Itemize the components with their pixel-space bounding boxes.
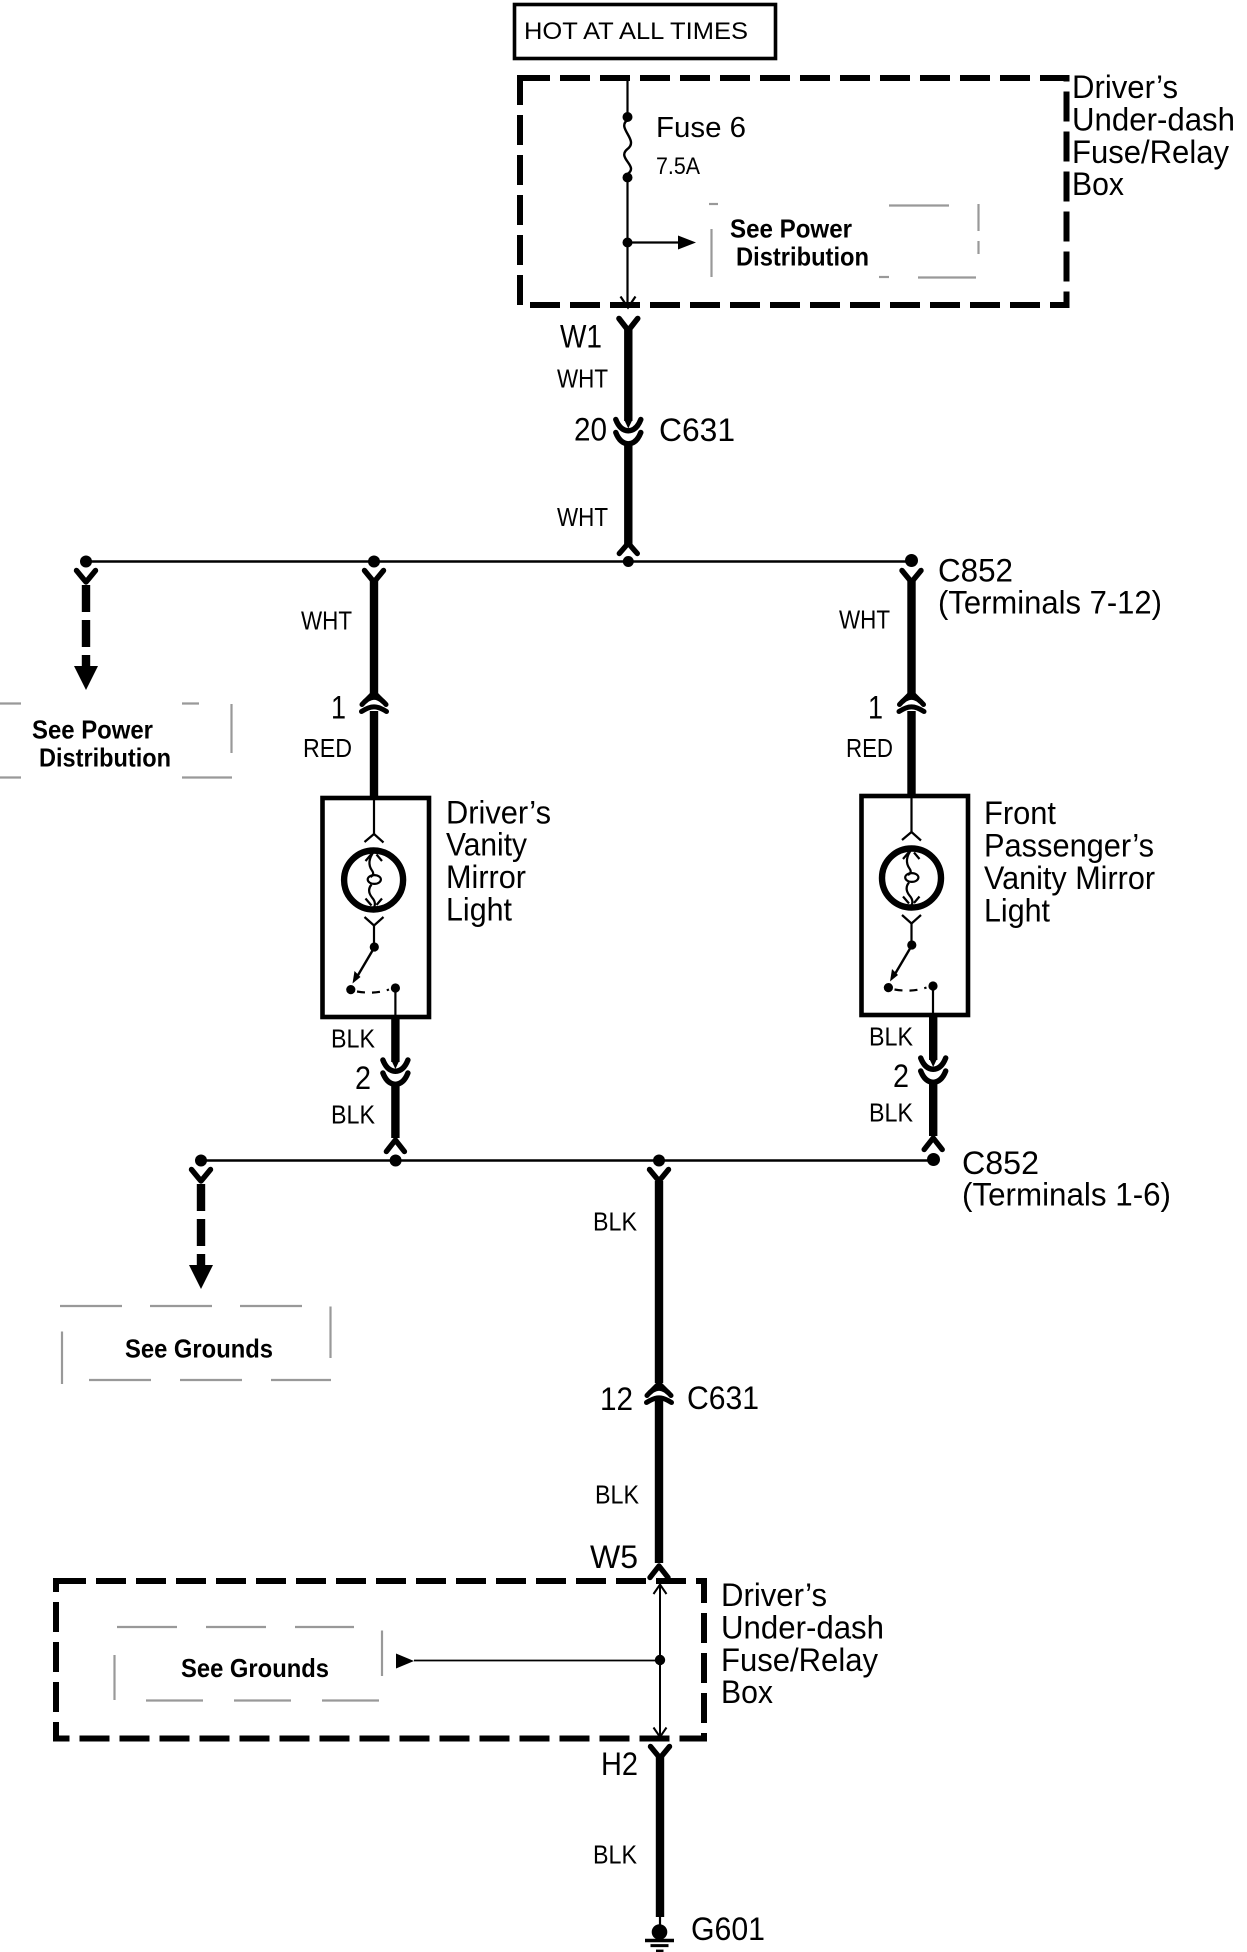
fork: wire opens into fuse box (W5) — [650, 1566, 668, 1578]
switch throw (dashed link) — [895, 988, 927, 991]
svg-text:G601: G601 — [691, 1911, 765, 1947]
arrow: branch to See Power Distribution — [632, 241, 679, 243]
connector C631 pin 12 (in-line pair) — [647, 1384, 672, 1403]
svg-text:Driver’s: Driver’s — [446, 794, 551, 830]
wire: WHT down to connector — [907, 581, 915, 695]
svg-text:Distribution: Distribution — [736, 242, 869, 272]
junction dot (driver branch) — [390, 1155, 402, 1167]
svg-text:C631: C631 — [687, 1380, 759, 1416]
junction dot (driver branch) — [368, 556, 380, 568]
fork: off ground bus — [650, 1170, 669, 1182]
svg-text:(Terminals 7-12): (Terminals 7-12) — [938, 585, 1162, 621]
svg-text:1: 1 — [331, 690, 346, 726]
switch S2 pivot — [907, 940, 916, 949]
label: fuse box name (top right) — [1072, 69, 1235, 202]
terminal chevron (above bulb) — [365, 834, 384, 843]
svg-text:W5: W5 — [590, 1539, 638, 1575]
switch blade — [358, 948, 375, 976]
wire: bulb to switch pivot — [910, 924, 912, 942]
wire: BLK to ground bus — [391, 1084, 399, 1138]
switch contact (right) — [928, 981, 937, 990]
wire: bulb to switch pivot — [373, 926, 375, 944]
svg-text:Mirror: Mirror — [446, 859, 526, 895]
svg-text:Front: Front — [984, 795, 1056, 831]
fork: wire opens onto bus — [619, 543, 637, 554]
svg-text:BLK: BLK — [331, 1026, 375, 1054]
fork: wire opens onto ground bus — [386, 1140, 404, 1152]
svg-text:Under-dash: Under-dash — [1072, 101, 1235, 137]
svg-text:2: 2 — [355, 1060, 371, 1096]
connector pin 2 (in-line pair) — [383, 1060, 408, 1084]
wire: fuse output inside box — [626, 182, 628, 238]
svg-text:RED: RED — [846, 735, 893, 763]
wire: BLK to ground — [656, 1757, 664, 1917]
svg-text:2: 2 — [893, 1058, 909, 1094]
svg-text:Distribution: Distribution — [39, 743, 171, 773]
svg-text:C852: C852 — [938, 553, 1013, 589]
terminal chevron (below bulb) — [365, 917, 384, 926]
fork: wire opens onto ground bus — [924, 1138, 942, 1150]
arrow: continues to See Power Distribution — [74, 666, 98, 690]
ghost reference box (faded) — [0, 704, 232, 778]
wire: RED into lamp unit — [370, 711, 378, 799]
svg-text:See Power: See Power — [730, 214, 852, 244]
svg-text:BLK: BLK — [595, 1482, 639, 1510]
svg-text:Passenger’s: Passenger’s — [984, 827, 1154, 863]
fuse 6 element — [624, 120, 631, 174]
wire: BLK from C631 to fuse box — [655, 1400, 663, 1563]
connector C631 pin 20 (in-line pair) — [616, 420, 641, 444]
svg-text:7.5A: 7.5A — [656, 153, 700, 180]
connector pin 1 (in-line pair) — [899, 693, 924, 712]
svg-text:Light: Light — [446, 891, 512, 927]
svg-text:Light: Light — [984, 892, 1050, 928]
svg-text:Driver’s: Driver’s — [1072, 69, 1178, 105]
junction dot (center down-wire) — [653, 1155, 665, 1167]
switch contact (left) — [346, 985, 355, 994]
svg-text:Vanity: Vanity — [446, 827, 527, 863]
wire: internal feed to bulb — [910, 798, 912, 832]
terminal chevron (below bulb) — [902, 915, 921, 924]
label: Front Passenger's Vanity Mirror Light — [984, 795, 1155, 929]
wire (dashed continuation) — [197, 1184, 205, 1267]
ghost reference box (faded) — [60, 1306, 331, 1384]
fuse 6 terminal dot (bottom) — [623, 173, 633, 183]
svg-text:Fuse 6: Fuse 6 — [656, 112, 746, 144]
svg-text:Vanity Mirror: Vanity Mirror — [984, 860, 1155, 896]
component box: Driver's Vanity Mirror Light — [323, 798, 430, 1017]
bulb L1: driver's vanity lamp — [344, 851, 403, 910]
svg-text:See Grounds: See Grounds — [181, 1653, 329, 1683]
svg-text:BLK: BLK — [869, 1100, 913, 1128]
svg-text:12: 12 — [600, 1381, 633, 1417]
svg-text:WHT: WHT — [301, 608, 352, 636]
svg-text:WHT: WHT — [557, 504, 608, 532]
wire: WHT down to connector — [370, 581, 378, 695]
svg-text:20: 20 — [574, 412, 607, 448]
label: Driver's Vanity Mirror Light — [446, 794, 551, 927]
switch contact (right) — [391, 983, 400, 992]
junction dot (passenger branch at C852) — [927, 1153, 940, 1166]
svg-text:BLK: BLK — [331, 1102, 375, 1130]
fork: branch off bus at C852 — [902, 571, 921, 583]
terminal chevron (above bulb) — [902, 832, 921, 841]
component box: Front Passenger's Vanity Mirror Light — [862, 796, 969, 1015]
fuse 6 terminal dot (top) — [623, 112, 633, 122]
svg-text:See Power: See Power — [32, 715, 153, 745]
svg-text:Box: Box — [1072, 166, 1124, 202]
ghost reference box (faded) — [115, 1627, 387, 1701]
svg-text:RED: RED — [303, 735, 352, 763]
junction dot (left) — [195, 1155, 207, 1167]
connector H2 (fork out of fuse box) — [651, 1747, 670, 1759]
wire: BLK to ground bus — [929, 1082, 937, 1136]
fuse box U1: Driver's Under-dash Fuse/Relay Box (dashed outline) — [520, 78, 1067, 305]
svg-text:H2: H2 — [601, 1746, 638, 1782]
bulb filament — [366, 852, 383, 908]
ghost reference box (faded) — [709, 204, 979, 278]
svg-text:BLK: BLK — [593, 1842, 637, 1870]
wire: switch output to case — [932, 989, 934, 1014]
arrow: branch to See Grounds — [414, 1660, 660, 1662]
open arrow: wire exits fuse box — [621, 297, 636, 308]
svg-text:Driver’s: Driver’s — [721, 1577, 827, 1613]
svg-text:WHT: WHT — [839, 607, 890, 635]
label: fuse box name (bottom right) — [721, 1577, 884, 1710]
wire: BLK below passenger's lamp — [929, 1015, 937, 1060]
junction dot (passenger branch at C852) — [905, 554, 918, 567]
connector pin 2 (in-line pair) — [921, 1058, 946, 1082]
bus wire: upper splice rail to C852 — [86, 560, 912, 563]
svg-text:Under-dash: Under-dash — [721, 1609, 884, 1645]
fork: left branch off bus — [77, 571, 96, 583]
bus wire: lower splice rail (ground side) — [201, 1159, 934, 1162]
wire (dashed continuation) — [82, 585, 90, 668]
wire: continues to box edge — [626, 247, 628, 306]
svg-text:(Terminals 1-6): (Terminals 1-6) — [962, 1177, 1171, 1213]
switch S1 pivot — [370, 942, 379, 951]
svg-text:BLK: BLK — [593, 1209, 637, 1237]
svg-text:HOT AT ALL TIMES: HOT AT ALL TIMES — [524, 18, 748, 45]
switch contact (left) — [884, 983, 893, 992]
fork: branch off ground bus — [192, 1170, 211, 1182]
svg-text:W1: W1 — [560, 319, 602, 355]
wire: internal ground path (double-ended arrow) — [659, 1585, 661, 1736]
bulb L2: passenger's vanity lamp — [882, 849, 941, 908]
switch blade — [895, 946, 912, 974]
wire: internal feed to bulb — [373, 800, 375, 834]
connector pin 1 (in-line pair) — [362, 693, 387, 712]
svg-text:Fuse/Relay: Fuse/Relay — [1072, 134, 1229, 170]
wire: BLK below driver's lamp — [391, 1017, 399, 1062]
junction dot (left) — [80, 556, 92, 568]
svg-text:See Grounds: See Grounds — [125, 1334, 273, 1364]
wire: WHT from C631 to splice bus — [624, 444, 632, 544]
junction dot: grounds tap — [655, 1655, 665, 1665]
fork: branch off bus — [365, 571, 384, 583]
wire: RED into lamp unit — [907, 711, 915, 797]
switch throw (dashed link) — [357, 990, 389, 993]
fuse box U1 (lower section): Driver's Under-dash Fuse/Relay Box (dashed outline) — [56, 1581, 704, 1739]
svg-text:Box: Box — [721, 1674, 773, 1710]
bulb filament — [903, 850, 920, 906]
node: HOT AT ALL TIMES banner — [515, 5, 776, 59]
svg-text:WHT: WHT — [557, 366, 608, 394]
wire: WHT from W1 to C631 — [624, 329, 632, 421]
wire: feed from hot bus to fuse — [626, 80, 628, 113]
junction dot: power distribution tap — [623, 238, 633, 248]
arrow: continues to See Grounds — [189, 1265, 213, 1289]
junction dot (feed) — [623, 556, 634, 567]
wire: switch output to case — [394, 991, 396, 1016]
svg-text:BLK: BLK — [869, 1024, 913, 1052]
svg-text:C631: C631 — [659, 412, 735, 448]
wire: BLK down to C631 — [655, 1181, 663, 1383]
svg-text:1: 1 — [868, 690, 883, 726]
connector W1 (fork into harness) — [619, 319, 638, 331]
svg-text:Fuse/Relay: Fuse/Relay — [721, 1642, 878, 1678]
ground G601 — [645, 1917, 674, 1951]
